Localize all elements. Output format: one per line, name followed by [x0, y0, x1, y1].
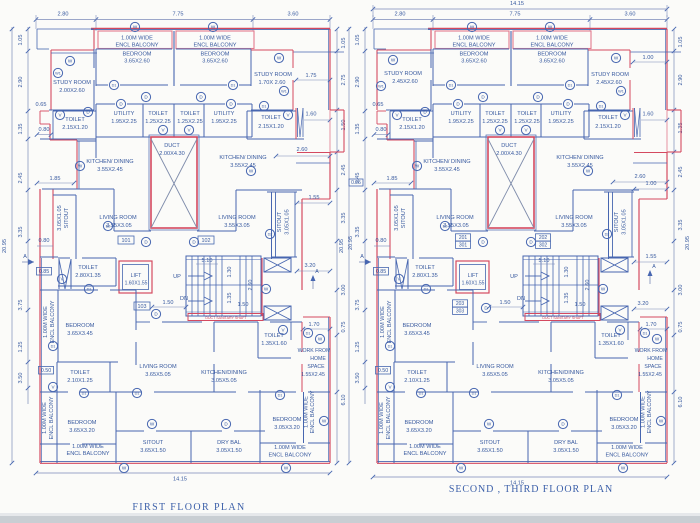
dimension 3.60 — [288, 12, 299, 18]
dimension 0.75 right — [341, 322, 347, 333]
door tag W — [147, 419, 156, 428]
svg-text:W: W — [318, 337, 323, 342]
svg-text:TOILET: TOILET — [78, 265, 98, 271]
svg-text:3.05X3.20: 3.05X3.20 — [274, 425, 300, 431]
dimension 7.75 — [510, 12, 521, 18]
dimension 2.90 right — [678, 75, 684, 86]
stair arrow down — [188, 297, 212, 305]
svg-text:2.00X4.30: 2.00X4.30 — [496, 151, 522, 157]
dimension 2.60 stair — [585, 280, 591, 291]
dimension line left outer 20.95 — [347, 27, 351, 465]
wall kitchen1 top — [77, 137, 96, 189]
svg-text:ENCL BALCONY: ENCL BALCONY — [115, 43, 158, 49]
wall toilet right box — [584, 111, 641, 139]
svg-text:A: A — [315, 269, 319, 275]
sitout outer wall red — [638, 199, 640, 290]
svg-text:D1: D1 — [419, 392, 424, 396]
door tag V — [394, 274, 403, 283]
dimension 1.60 toilet right — [641, 112, 669, 123]
svg-text:TOILET: TOILET — [148, 111, 168, 117]
dimension 1.35 left — [18, 124, 24, 135]
svg-text:201: 201 — [459, 235, 468, 241]
svg-text:3.55X2.45: 3.55X2.45 — [97, 167, 123, 173]
svg-text:D1: D1 — [135, 392, 140, 396]
svg-text:3.65X2.60: 3.65X2.60 — [539, 59, 565, 65]
svg-text:KITCHEN/ DINING: KITCHEN/ DINING — [86, 159, 133, 165]
sitout left wall red — [389, 189, 391, 259]
wall toilet band top — [96, 103, 252, 105]
room label balcony left-rot bottom — [42, 396, 55, 439]
svg-text:BEDROOM: BEDROOM — [405, 420, 434, 426]
svg-text:BEDROOM: BEDROOM — [403, 323, 432, 329]
boxed dimension 0.85 — [37, 267, 52, 275]
svg-text:0.85: 0.85 — [376, 269, 387, 275]
svg-text:1.55: 1.55 — [646, 254, 657, 260]
door tag W — [467, 22, 476, 31]
svg-text:1.00M WIDE: 1.00M WIDE — [274, 445, 306, 451]
svg-text:SPACE: SPACE — [307, 364, 325, 370]
wall sitout-right box — [267, 192, 297, 259]
svg-text:3.05X1.50: 3.05X1.50 — [553, 448, 579, 454]
svg-text:1.00: 1.00 — [643, 55, 654, 61]
svg-text:1.50: 1.50 — [575, 302, 586, 308]
svg-text:W: W — [78, 164, 83, 169]
room label balcony 4 — [403, 444, 446, 457]
door tag V — [278, 325, 287, 334]
door tag D unit2 — [526, 237, 535, 246]
wall living2 right — [197, 190, 236, 231]
door tag V — [615, 325, 624, 334]
svg-text:SITOUT: SITOUT — [64, 207, 70, 228]
dimension 1.00 sitout — [632, 181, 669, 191]
unit number 203 303 — [453, 300, 468, 315]
svg-text:TOILET: TOILET — [407, 370, 427, 376]
dimension 6.10 right — [341, 395, 347, 406]
dimension 2.45 right — [341, 165, 347, 176]
wall sitout-right box — [604, 192, 634, 259]
svg-text:1.05: 1.05 — [355, 35, 361, 46]
svg-text:3.65X1.50: 3.65X1.50 — [477, 448, 503, 454]
dimension 0.80 toilet — [372, 127, 390, 137]
svg-text:TOILET: TOILET — [180, 111, 200, 117]
room label bedroom 4 — [68, 420, 97, 434]
door tag D1 — [84, 284, 93, 293]
svg-text:2.90: 2.90 — [678, 75, 684, 86]
svg-text:1.25: 1.25 — [18, 342, 24, 353]
room label lift — [125, 273, 148, 287]
svg-text:LIFT: LIFT — [468, 273, 479, 279]
svg-text:UTILITY: UTILITY — [214, 111, 235, 117]
dimension 2.90 left — [18, 77, 24, 88]
wall toilet band bottom — [96, 136, 252, 138]
label DN — [517, 296, 525, 302]
svg-text:301: 301 — [459, 242, 468, 248]
room label toilet mid-left — [412, 265, 438, 279]
outer wall work-space red — [303, 317, 330, 463]
sitout outer wall red — [301, 199, 303, 290]
door tag W — [611, 53, 620, 62]
svg-text:0.80: 0.80 — [39, 127, 50, 133]
dimension 0.80 left — [37, 238, 53, 246]
window M glyph — [396, 259, 408, 289]
door tag W — [281, 463, 290, 472]
wall balcony divider bl — [393, 392, 395, 463]
wall living3/kitchen divider — [550, 322, 552, 392]
room label bedroom 2 — [538, 52, 567, 65]
svg-text:ENCL BALCONY: ENCL BALCONY — [605, 453, 648, 459]
room label bedroom 1 — [460, 52, 489, 65]
dimension 1.50 stair — [238, 302, 249, 308]
svg-text:1.00M WIDE: 1.00M WIDE — [641, 396, 647, 428]
door tag D1 — [228, 80, 237, 89]
door tag D1 — [259, 101, 268, 110]
wall toilet right box — [247, 111, 304, 139]
wall bottom band top — [377, 391, 667, 393]
svg-text:TOILET: TOILET — [65, 117, 85, 123]
wall utility1 left — [95, 104, 97, 137]
svg-text:1.00M WIDE: 1.00M WIDE — [380, 306, 386, 338]
unit number 202 302 — [536, 234, 551, 249]
svg-text:A: A — [23, 254, 27, 260]
outer wall left red — [377, 189, 379, 463]
svg-text:ENCL BALCONY: ENCL BALCONY — [647, 390, 653, 433]
svg-text:1.70: 1.70 — [309, 322, 320, 328]
room label toilet 4 — [404, 370, 430, 384]
outer wall top red — [428, 28, 667, 29]
svg-text:TOILET: TOILET — [517, 111, 537, 117]
dimension 3.50 left — [18, 373, 24, 384]
room label lift — [462, 273, 485, 287]
svg-text:1.25X2.25: 1.25X2.25 — [514, 119, 540, 125]
dimension 2.80 — [395, 12, 406, 18]
svg-text:3.35: 3.35 — [341, 213, 347, 224]
outer wall left red — [40, 189, 42, 463]
room label utility 1 — [448, 111, 474, 125]
room label utility 1 — [111, 111, 137, 125]
wall living3/kitchen divider — [213, 322, 215, 392]
dimension 3.00 right — [341, 285, 347, 296]
svg-text:1.25X2.25: 1.25X2.25 — [482, 119, 508, 125]
svg-text:D1: D1 — [424, 288, 429, 292]
unit number 201 301 — [456, 234, 471, 249]
svg-text:2.90: 2.90 — [355, 77, 361, 88]
svg-text:1.60X1.55: 1.60X1.55 — [125, 281, 148, 287]
wall bedroom1 left — [95, 49, 97, 86]
room label work from home — [298, 348, 331, 378]
svg-text:BEDROOM: BEDROOM — [610, 417, 639, 423]
wall kitchen2 north — [633, 153, 667, 164]
svg-text:1.50: 1.50 — [500, 300, 511, 306]
dimension 1.25 left — [355, 342, 361, 353]
svg-text:2.45: 2.45 — [341, 165, 347, 176]
wall toilet band top — [433, 103, 589, 105]
wall balcony bottom — [96, 48, 251, 50]
svg-text:3.50: 3.50 — [18, 373, 24, 384]
door tag W1 — [376, 81, 385, 90]
room label kitchen 1 — [423, 159, 470, 173]
svg-text:D1: D1 — [449, 84, 454, 88]
wall kitchen2 bottom — [573, 189, 639, 191]
dimension 1.05 right — [341, 38, 347, 49]
svg-text:D1: D1 — [599, 105, 604, 109]
door tag D1 — [109, 80, 118, 89]
door tag circle 103 — [151, 309, 160, 318]
svg-text:2.75: 2.75 — [341, 75, 347, 86]
door tag D unit1 — [478, 237, 487, 246]
svg-text:1.35: 1.35 — [355, 124, 361, 135]
wall living2 right — [534, 190, 573, 231]
door tag W — [75, 161, 84, 170]
stair landing — [186, 260, 261, 313]
dimension 2.45 left — [18, 173, 24, 184]
wall work space left — [301, 322, 303, 392]
svg-text:2.45: 2.45 — [678, 167, 684, 178]
room label toilet 1 — [145, 111, 171, 125]
svg-text:0.65: 0.65 — [373, 102, 384, 108]
wall bedroom2 right — [587, 49, 589, 86]
room label toilet left — [62, 117, 88, 131]
svg-text:W: W — [284, 466, 289, 471]
svg-text:BEDROOM: BEDROOM — [201, 52, 230, 58]
window M toilet right — [633, 108, 640, 139]
dimension 3.50 left — [355, 373, 361, 384]
svg-text:2.80X1.35: 2.80X1.35 — [75, 273, 101, 279]
room label balcony 1 — [115, 36, 158, 49]
room label balcony 2 — [193, 36, 236, 49]
svg-text:1.35: 1.35 — [18, 124, 24, 135]
door tag W — [656, 416, 665, 425]
door tag V — [392, 110, 401, 119]
svg-text:W: W — [470, 25, 475, 30]
svg-text:2.10X1.25: 2.10X1.25 — [404, 378, 430, 384]
svg-text:0.75: 0.75 — [341, 322, 347, 333]
room label balcony 1 — [452, 36, 495, 49]
room label toilet 5 — [261, 333, 287, 347]
dimension 1.50 corridor — [487, 300, 525, 309]
svg-text:TOILET: TOILET — [598, 115, 618, 121]
svg-text:1.60: 1.60 — [643, 112, 654, 118]
wall balcony divider br — [640, 392, 642, 443]
wall toilet divider — [173, 104, 175, 137]
wall study2 box — [251, 50, 344, 110]
room label toilet 4 — [67, 370, 93, 384]
wall sitout bottom top — [453, 430, 602, 432]
svg-text:W: W — [264, 287, 269, 292]
study room outer red — [51, 28, 97, 110]
svg-text:ENCL BALCONY: ENCL BALCONY — [387, 300, 393, 343]
svg-text:0.75: 0.75 — [678, 322, 684, 333]
svg-text:3.65X5.05: 3.65X5.05 — [482, 372, 508, 378]
wall bedroom2 right — [250, 49, 252, 86]
wall bedroom3 right — [135, 290, 137, 365]
svg-text:D1: D1 — [82, 392, 87, 396]
room label sitout bottom — [477, 440, 503, 454]
svg-text:2.15X1.20: 2.15X1.20 — [399, 125, 425, 131]
door tag D — [226, 99, 235, 108]
svg-text:D1: D1 — [306, 332, 311, 336]
room label toilet mid-left — [75, 265, 101, 279]
wall bedroom3 top — [377, 289, 473, 291]
wall toilet mid-left box — [395, 258, 453, 286]
balcony 2 red box — [513, 31, 591, 49]
room label toilet 2 — [514, 111, 540, 125]
svg-text:1.05: 1.05 — [341, 38, 347, 49]
svg-text:TOILET: TOILET — [70, 370, 90, 376]
dimension 3.35 right — [678, 220, 684, 231]
dimension line bottom 14.15 — [371, 475, 669, 479]
wall utility1 left — [432, 104, 434, 137]
svg-text:1.70X 2.60: 1.70X 2.60 — [258, 80, 285, 86]
svg-text:BEDROOM: BEDROOM — [66, 323, 95, 329]
dimension 1.50 corridor — [150, 300, 188, 309]
dimension 3.75 left — [18, 300, 24, 311]
svg-text:W: W — [548, 25, 553, 30]
svg-text:3.60: 3.60 — [625, 12, 636, 18]
room label work from home — [635, 348, 668, 378]
dimension 3.75 left — [355, 300, 361, 311]
svg-text:14.15: 14.15 — [510, 1, 524, 7]
svg-text:2.15X1.20: 2.15X1.20 — [258, 124, 284, 130]
svg-text:LIVING ROOM: LIVING ROOM — [476, 364, 514, 370]
svg-text:1.25: 1.25 — [355, 342, 361, 353]
svg-text:KITCHEN/DINING: KITCHEN/DINING — [201, 370, 247, 376]
svg-text:2.45X2.60: 2.45X2.60 — [392, 79, 418, 85]
svg-text:1.70: 1.70 — [646, 322, 657, 328]
svg-text:WORK FROM: WORK FROM — [298, 348, 331, 354]
svg-text:BEDROOM: BEDROOM — [273, 417, 302, 423]
svg-text:3.05X3.20: 3.05X3.20 — [611, 425, 637, 431]
room label dry bal — [553, 440, 579, 454]
room label living room 3 — [139, 364, 177, 378]
svg-text:0.85: 0.85 — [39, 269, 50, 275]
door tag V — [283, 110, 292, 119]
door tag D2 — [602, 229, 611, 238]
svg-text:W: W — [391, 58, 396, 63]
svg-text:W: W — [601, 287, 606, 292]
svg-text:W: W — [614, 56, 619, 61]
wall bedroom5 balcony divider — [260, 442, 330, 444]
svg-text:3.65X3.20: 3.65X3.20 — [69, 428, 95, 434]
door tag D1 — [48, 341, 57, 350]
dimension 3.35 left — [18, 227, 24, 238]
room label toilet 2 — [177, 111, 203, 125]
room label balcony 4 — [66, 444, 109, 457]
svg-text:1.50: 1.50 — [238, 302, 249, 308]
svg-text:W: W — [133, 25, 138, 30]
room label bedroom 1 — [123, 52, 152, 65]
room label duct — [496, 143, 522, 157]
svg-text:20.95: 20.95 — [339, 239, 345, 253]
svg-text:3.00: 3.00 — [341, 285, 347, 296]
door tag W1 — [53, 68, 62, 77]
door tag D2 — [265, 229, 274, 238]
door tag V — [158, 125, 167, 134]
svg-text:2.80X1.35: 2.80X1.35 — [412, 273, 438, 279]
room label balcony left rot — [43, 300, 56, 343]
door tag V — [620, 110, 629, 119]
wall balcony bottom — [433, 48, 588, 50]
svg-text:STUDY ROOM: STUDY ROOM — [254, 72, 292, 78]
balcony 2 red box — [176, 31, 254, 49]
door tag D1 — [385, 341, 394, 350]
svg-text:1.55X2.45: 1.55X2.45 — [301, 372, 325, 378]
svg-text:1.05: 1.05 — [18, 35, 24, 46]
stair treads — [529, 256, 589, 316]
room label balcony left-rot bottom — [379, 396, 392, 439]
svg-text:1.95X2.25: 1.95X2.25 — [111, 119, 137, 125]
wall toilet left box — [377, 111, 433, 139]
svg-text:1.25X2.25: 1.25X2.25 — [177, 119, 203, 125]
boxed dimension 0.85 — [374, 267, 389, 275]
dimension 3.20 column — [632, 301, 669, 311]
svg-text:0.80: 0.80 — [376, 127, 387, 133]
svg-text:KITCHEN/ DINING: KITCHEN/ DINING — [423, 159, 470, 165]
svg-text:3.35: 3.35 — [18, 227, 24, 238]
room label utility 2 — [211, 111, 237, 125]
svg-text:DUCT SANITARY SHAFT: DUCT SANITARY SHAFT — [542, 316, 584, 320]
door tag D1 — [79, 388, 88, 397]
svg-text:2.80: 2.80 — [58, 12, 69, 18]
dimension line top — [371, 15, 669, 31]
dimension line 14.15 top right plan — [371, 1, 669, 17]
svg-text:203: 203 — [456, 301, 465, 307]
dimension 7.75 — [173, 12, 184, 18]
stair treads — [192, 256, 252, 316]
door tag W — [598, 284, 607, 293]
dimension 20.95 left — [339, 239, 345, 253]
room label duct — [159, 143, 185, 157]
dimension line top — [34, 15, 332, 31]
svg-text:DN: DN — [180, 296, 188, 302]
svg-text:2.45: 2.45 — [18, 173, 24, 184]
door tag D — [83, 107, 92, 116]
svg-text:6.10: 6.10 — [678, 397, 684, 408]
svg-text:W: W — [586, 169, 591, 174]
svg-text:DRY BAL: DRY BAL — [217, 440, 241, 446]
wall drybal divider — [190, 431, 192, 463]
svg-text:3.20: 3.20 — [638, 301, 649, 307]
door tag W — [208, 22, 217, 31]
svg-text:3.65X3.45: 3.65X3.45 — [67, 331, 93, 337]
dimension 1.60 toilet right — [304, 112, 332, 123]
svg-text:UTILITY: UTILITY — [114, 111, 135, 117]
svg-text:SITOUT: SITOUT — [614, 211, 620, 232]
svg-text:0.50: 0.50 — [378, 368, 389, 374]
door tag W — [618, 463, 627, 472]
wall kitchen2 bottom — [236, 189, 302, 191]
wall sitout-left inner — [390, 195, 413, 259]
stair outline — [523, 256, 598, 316]
svg-text:102: 102 — [202, 238, 211, 244]
door tag D1 — [565, 80, 574, 89]
wall utility2 right — [251, 104, 253, 137]
stair wall right red — [261, 258, 263, 316]
svg-text:20.95: 20.95 — [2, 239, 8, 253]
svg-text:3.50: 3.50 — [355, 373, 361, 384]
balcony 1 red box — [435, 31, 509, 49]
wall toilet4 box — [57, 362, 118, 392]
wall toilet4 box — [394, 362, 455, 392]
svg-text:2.60: 2.60 — [248, 280, 254, 291]
door tag W — [130, 22, 139, 31]
dimension line left inner — [26, 27, 30, 404]
wall sitout-left inner — [53, 195, 76, 259]
svg-text:3.05X1.05: 3.05X1.05 — [57, 205, 63, 231]
wall work space left — [638, 322, 640, 392]
wall balcony divider br — [303, 392, 305, 443]
svg-text:1.00M WIDE: 1.00M WIDE — [536, 36, 568, 42]
svg-text:KITCHEN/ DINING: KITCHEN/ DINING — [556, 155, 603, 161]
